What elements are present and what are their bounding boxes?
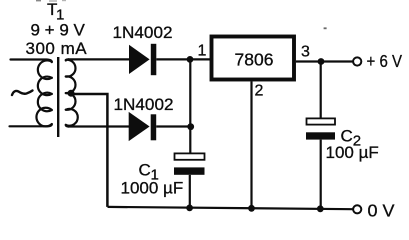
wire: centre tap to 0V rail [70, 94, 107, 207]
wire: regulator output to +6V [296, 60, 353, 62]
wire: D2 to node [156, 125, 191, 127]
node 1 junction dot [187, 56, 194, 63]
junction dot at D2 cathode node [187, 123, 194, 130]
wire: D1 to regulator input [156, 58, 210, 60]
svg-text:+ 6 V: + 6 V [367, 51, 403, 71]
svg-text:300 mA: 300 mA [26, 39, 88, 58]
wire: node 1 down to D2 node and C1 [189, 59, 191, 153]
wire: secondary bottom to D2 [68, 125, 130, 127]
svg-text:3: 3 [301, 44, 310, 61]
svg-text:1000 µF: 1000 µF [121, 179, 184, 198]
0V rail [108, 207, 353, 209]
transformer T1 primary winding [10, 60, 52, 127]
svg-text:0 V: 0 V [368, 201, 395, 221]
centre tap junction dot [68, 90, 75, 97]
pin 2 wire: regulator to rail [250, 82, 252, 209]
node 3 junction dot [318, 58, 325, 65]
0V terminal [353, 205, 361, 213]
diode D1 1N4002 [129, 44, 156, 75]
capacitor C2 plates [307, 118, 336, 124]
svg-text:C: C [139, 161, 151, 180]
wire: node 3 down to C2 [320, 62, 322, 119]
wire: C1 to rail [189, 175, 191, 208]
svg-text:1: 1 [198, 42, 207, 59]
svg-text:1N4002: 1N4002 [113, 23, 173, 42]
junction dot pin2/rail [248, 205, 255, 212]
svg-text:1N4002: 1N4002 [114, 95, 174, 114]
wire: C2 to rail [320, 140, 322, 209]
wire: secondary top to D1 [68, 58, 130, 60]
junction dot C2/rail [317, 205, 324, 212]
transformer core [57, 57, 59, 137]
junction dot C1/rail [186, 205, 193, 212]
diode D2 1N4002 [129, 112, 157, 141]
ac source tilde [12, 91, 33, 96]
svg-text:100 µF: 100 µF [326, 143, 379, 162]
transformer T1 secondary winding (centre-tapped) [66, 59, 78, 126]
capacitor C1 plates [175, 153, 205, 159]
svg-text:2: 2 [255, 83, 264, 100]
svg-text:7806: 7806 [235, 50, 274, 70]
scan specks (noise) [324, 27, 327, 29]
+6V terminal [353, 57, 361, 65]
regulator U1 7806 [212, 37, 295, 80]
svg-text:9 + 9 V: 9 + 9 V [31, 21, 86, 40]
